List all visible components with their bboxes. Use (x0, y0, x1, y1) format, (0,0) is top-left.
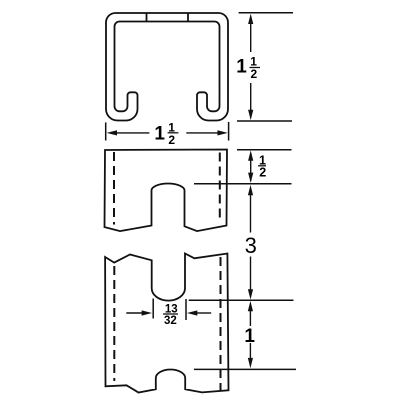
svg-text:2: 2 (259, 166, 266, 180)
svg-text:1: 1 (154, 123, 165, 144)
svg-text:1: 1 (236, 56, 247, 77)
svg-text:32: 32 (164, 315, 177, 327)
svg-text:2: 2 (251, 67, 258, 81)
svg-text:1: 1 (244, 326, 255, 347)
svg-text:3: 3 (245, 233, 257, 258)
svg-text:2: 2 (168, 133, 175, 147)
